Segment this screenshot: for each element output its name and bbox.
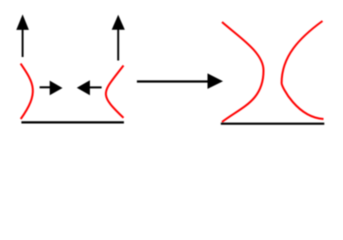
ground line under right figure (221, 123, 324, 125)
right wall curve (red) (106, 66, 124, 118)
transition arrow (137, 73, 223, 89)
up arrow above left wall (16, 14, 29, 57)
inward arrow pointing left (77, 80, 102, 95)
merged neck left curve (red) (222, 22, 264, 122)
up arrow above right wall (112, 15, 125, 61)
merged neck right curve (red) (282, 21, 324, 119)
left wall curve (red) (21, 64, 33, 119)
inward arrow pointing right (40, 81, 63, 96)
ground line under left figure (21, 121, 124, 123)
